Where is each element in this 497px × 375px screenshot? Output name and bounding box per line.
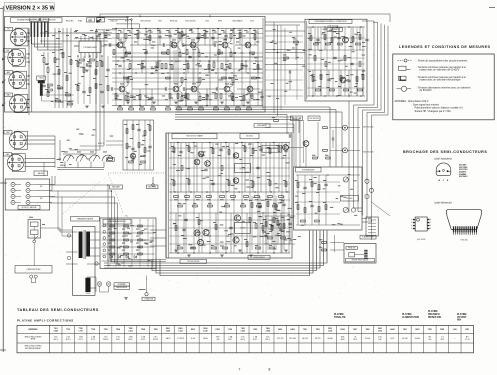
- wire: [230, 213, 232, 253]
- value label: [286, 82, 289, 85]
- board outline protection: [294, 167, 362, 230]
- svg-text:VOYANT: VOYANT: [457, 316, 467, 319]
- table header T851: [428, 329, 432, 331]
- wire mains: [33, 243, 35, 266]
- capacitor C54: [262, 231, 265, 233]
- value label: [269, 228, 272, 231]
- svg-text:T708: T708: [91, 329, 95, 331]
- value label: [287, 213, 290, 216]
- resistor R186: [279, 224, 281, 229]
- value label: [272, 240, 275, 243]
- table value 18b: [265, 339, 270, 341]
- value label: [129, 105, 133, 108]
- value label: [258, 215, 261, 218]
- value label: [140, 105, 144, 108]
- svg-text:L901: L901: [453, 329, 457, 331]
- capacitor C29: [288, 223, 291, 225]
- value label: [108, 249, 111, 252]
- value label: [171, 150, 175, 153]
- wire vertical run: [209, 143, 211, 254]
- wire bus vertical lower: [361, 110, 364, 215]
- connector symbol DIN: [349, 252, 355, 257]
- wire: [110, 218, 166, 262]
- value label T905a: [223, 39, 227, 42]
- junction J6: [157, 28, 158, 29]
- table column line 20: [298, 326, 300, 353]
- table value 8: [141, 336, 146, 339]
- wire bus vertical lower: [348, 101, 350, 213]
- svg-text:F901: F901: [465, 329, 469, 331]
- svg-text:5: 5: [430, 228, 431, 230]
- value label: [136, 242, 139, 245]
- wire: [307, 49, 365, 51]
- table value 15b: [228, 339, 232, 341]
- diode D1: [110, 256, 113, 259]
- value label: [58, 158, 61, 161]
- wire bus vertical lower: [358, 108, 362, 212]
- wire vertical run: [123, 219, 125, 267]
- ground: [284, 250, 288, 252]
- connector point alim board 1: [103, 224, 106, 227]
- svg-text:TABLEAU DES SEMI-CONDUCTEURS: TABLEAU DES SEMI-CONDUCTEURS: [17, 308, 99, 312]
- value label: [79, 133, 82, 136]
- connector label AUX: [5, 71, 13, 75]
- junction J88: [360, 95, 361, 96]
- wire: [66, 251, 78, 253]
- resistor R151: [47, 92, 49, 97]
- wire corner feed: [108, 20, 132, 29]
- value label: [98, 33, 101, 36]
- wire: [51, 176, 53, 191]
- wire rail: [169, 157, 290, 159]
- value label: [177, 31, 180, 34]
- switch block bar vertical: [40, 83, 43, 96]
- resistor R41: [144, 148, 146, 153]
- wire: [373, 21, 378, 23]
- wire: [141, 61, 143, 73]
- wire: [26, 99, 29, 101]
- table column line 7: [136, 326, 138, 353]
- value label: [127, 227, 130, 230]
- table value 33: [454, 338, 456, 340]
- value label: [242, 35, 245, 38]
- switch S903: [33, 236, 38, 243]
- value label: [223, 31, 226, 34]
- value label: [295, 201, 298, 204]
- svg-text:W 06: W 06: [191, 338, 195, 340]
- resistor R114: [124, 225, 129, 227]
- value label: [145, 83, 149, 86]
- label T406: [363, 151, 374, 153]
- value label: [200, 153, 204, 156]
- resistor R24: [129, 108, 134, 110]
- value label: [188, 243, 192, 246]
- capacitor T901 coupling: [163, 43, 165, 46]
- svg-text:GP 250: GP 250: [402, 338, 408, 340]
- wire: [340, 70, 342, 96]
- label IN 50/60: [341, 196, 359, 202]
- wire vertical run: [233, 143, 235, 254]
- junction J66: [183, 72, 184, 73]
- wire: [197, 91, 200, 93]
- wire: [181, 82, 183, 85]
- value label: [170, 97, 173, 100]
- table column line 14: [223, 326, 225, 353]
- value label: [302, 192, 305, 195]
- svg-text:à 907: à 907: [128, 330, 132, 332]
- wire: [87, 287, 96, 289]
- wire: [338, 27, 340, 50]
- wire vertical run: [185, 143, 187, 254]
- connector point CP1: [365, 179, 369, 183]
- table header T908: [141, 329, 145, 331]
- wire: [265, 123, 294, 125]
- table value 27b: [379, 339, 382, 341]
- value label: [321, 32, 323, 35]
- capacitor C4: [154, 66, 157, 68]
- value label: [178, 214, 181, 217]
- value label: [273, 202, 276, 205]
- svg-text:T705: T705: [66, 329, 70, 331]
- value label: [285, 161, 289, 164]
- junction J5: [145, 28, 146, 29]
- wire: [289, 74, 291, 90]
- value label: [278, 234, 281, 237]
- resistor R69: [193, 205, 198, 207]
- wire rail: [169, 243, 290, 245]
- wire: [102, 225, 155, 227]
- table column line 21: [310, 326, 312, 353]
- wire: [102, 232, 155, 234]
- value label T900b: [120, 83, 124, 86]
- wire: [88, 53, 90, 59]
- value label: [279, 198, 283, 201]
- junction J74: [222, 191, 223, 192]
- resistor R144: [125, 96, 127, 101]
- table column line 15: [236, 326, 238, 353]
- value label: [220, 223, 223, 226]
- fuse block outline: [28, 220, 41, 239]
- value label: [239, 158, 242, 161]
- wire: [304, 175, 306, 225]
- svg-text:2 1 05: 2 1 05: [465, 339, 470, 341]
- wire: [155, 61, 157, 73]
- wire: [265, 30, 305, 32]
- value label: [202, 244, 206, 247]
- wire: [103, 162, 105, 168]
- pin label C: [443, 180, 445, 182]
- junction J77: [270, 191, 271, 192]
- value label: [255, 31, 258, 34]
- value label: [326, 86, 329, 89]
- resistor R60: [196, 196, 201, 198]
- value label: [150, 31, 153, 34]
- value label: [87, 157, 90, 160]
- value label: [250, 20, 254, 22]
- resistor T905b emitter: [232, 96, 234, 101]
- wire: [288, 147, 303, 149]
- capacitor C35: [256, 167, 259, 169]
- svg-text:T901 2SC945: T901 2SC945: [140, 20, 150, 22]
- value label: [90, 151, 94, 154]
- value label: [332, 223, 336, 226]
- wire vertical run: [281, 143, 283, 254]
- legend text 2a: [417, 66, 467, 69]
- table value 5: [104, 337, 109, 339]
- svg-text:D504: D504: [341, 328, 345, 331]
- wire: [87, 231, 100, 233]
- capacitor C20: [337, 37, 340, 39]
- connector pin row 3: [368, 225, 376, 227]
- wire vertical run: [103, 30, 105, 146]
- TO-92 package outline: [436, 163, 451, 176]
- wire bus: [175, 110, 336, 168]
- value label: [211, 244, 214, 247]
- wire: [254, 29, 256, 46]
- wire: [206, 89, 208, 106]
- resistor R45: [188, 147, 190, 152]
- board label tonalite: [309, 20, 352, 24]
- resistor T901 emitter: [179, 52, 181, 57]
- pot label: [107, 158, 115, 162]
- value label: [282, 157, 285, 160]
- wire: [139, 15, 141, 18]
- svg-text:28 440: 28 440: [328, 338, 333, 340]
- pot label balance: [34, 171, 48, 176]
- value label: [200, 36, 203, 39]
- wire: [371, 220, 373, 241]
- value label: [121, 56, 125, 59]
- wire: [102, 253, 155, 255]
- transistor T909: [233, 178, 239, 184]
- legend text 3b: [420, 79, 462, 82]
- table value 3b: [79, 339, 83, 341]
- junction J53: [143, 60, 144, 61]
- wire: [232, 82, 234, 85]
- value label: [183, 202, 186, 205]
- connector label TUNER: [4, 49, 12, 53]
- value label: [338, 59, 341, 62]
- table header D401: [278, 328, 282, 331]
- value label: [206, 36, 209, 39]
- value label: [177, 105, 181, 108]
- wire: [283, 216, 285, 244]
- table header T706: [79, 328, 83, 330]
- table column line 2: [73, 326, 75, 353]
- value label: [273, 28, 276, 31]
- svg-text:RECORD: RECORD: [66, 20, 74, 22]
- wire: [169, 212, 290, 214]
- wire: [96, 36, 98, 41]
- value label: [354, 214, 357, 217]
- value label: [296, 56, 298, 59]
- value label: [104, 43, 108, 46]
- value label: [256, 98, 259, 101]
- value label: [187, 98, 190, 101]
- value label: [136, 123, 139, 126]
- wire: [262, 213, 264, 253]
- resistor R26: [151, 108, 156, 110]
- resistor R153: [221, 166, 223, 171]
- svg-text:2473: 2473: [353, 339, 357, 341]
- resistor R2: [58, 70, 60, 75]
- table column line 29: [410, 326, 412, 353]
- connector pin 6: [364, 258, 367, 259]
- resistor R78: [246, 242, 248, 247]
- junction J15: [187, 60, 188, 61]
- table column line 24: [348, 326, 350, 353]
- junction J43: [273, 142, 274, 143]
- wire: [230, 49, 232, 52]
- resistor T905b bias: [220, 94, 222, 99]
- value label: [66, 34, 69, 37]
- wire: [265, 49, 305, 51]
- value label: [182, 52, 185, 55]
- svg-text:D604: D604: [390, 328, 394, 331]
- ground: [220, 255, 224, 257]
- svg-text:PLATINE: PLATINE: [334, 313, 344, 316]
- legend symbol raccordement: [398, 59, 413, 62]
- value label: [327, 174, 329, 177]
- value label: [235, 96, 238, 99]
- wire bus: [175, 117, 293, 133]
- svg-text:T904: T904: [116, 328, 120, 331]
- svg-text:à 904: à 904: [54, 329, 58, 332]
- capacitor C43: [100, 91, 103, 93]
- table column line 28: [398, 326, 400, 353]
- resistor R73: [257, 205, 262, 207]
- value label: [181, 94, 184, 97]
- value label: [287, 49, 291, 52]
- table value 14: [216, 337, 220, 339]
- value label: [115, 98, 119, 101]
- wire vertical run: [257, 29, 259, 106]
- value label: [128, 257, 131, 260]
- wire rail: [169, 219, 290, 221]
- value label: [84, 34, 87, 37]
- resistor R155: [273, 218, 275, 223]
- value label: [235, 187, 238, 190]
- wire rail: [112, 68, 263, 70]
- svg-text:masse avec un voltmètre électr: masse avec un voltmètre électronique.: [420, 79, 462, 82]
- junction J87: [360, 26, 361, 27]
- resistor R138: [250, 52, 255, 54]
- wire: [80, 145, 104, 147]
- row header REPERES: [28, 329, 38, 331]
- wire: [102, 260, 155, 262]
- resistor R35: [126, 129, 128, 134]
- value label: [188, 105, 192, 108]
- svg-text:: Points de raccordement des c: : Points de raccordement des circuits im…: [417, 59, 469, 62]
- ground: [174, 250, 178, 252]
- wire: [2, 6, 4, 352]
- wire: [150, 229, 166, 231]
- junction J81: [324, 26, 325, 27]
- label U903: [240, 228, 246, 230]
- table column line 26: [373, 326, 375, 353]
- value label: [212, 29, 215, 32]
- resistor R145: [161, 64, 163, 69]
- table column line 19: [285, 326, 287, 353]
- value label: [255, 244, 258, 247]
- wire: [188, 143, 190, 193]
- wire: [26, 53, 29, 55]
- transistor T907: [205, 161, 211, 167]
- ground: [85, 70, 89, 72]
- value label: [284, 238, 287, 241]
- capacitor C34: [204, 169, 207, 171]
- value label: [350, 91, 353, 94]
- svg-text:T801: T801: [403, 329, 407, 331]
- capacitor C47: [118, 65, 121, 67]
- svg-text:S-2: S-2: [43, 19, 46, 21]
- value label: [60, 101, 63, 104]
- capacitor C42: [82, 91, 85, 93]
- table header T709: [104, 329, 108, 331]
- value label: [127, 29, 130, 32]
- value label: [121, 261, 124, 264]
- wire: [59, 140, 61, 161]
- svg-text:945 Q: 945 Q: [240, 339, 245, 341]
- value label T904: [192, 83, 196, 86]
- resistor R49: [252, 149, 254, 154]
- board outline preamp inner edge: [262, 18, 264, 110]
- wire vertical run: [299, 117, 301, 167]
- capacitor T905b coupling: [216, 87, 218, 90]
- value label: [56, 58, 60, 61]
- value label: [161, 72, 164, 75]
- resistor R22: [243, 96, 245, 101]
- value label: [120, 254, 123, 257]
- value label: [78, 62, 82, 65]
- svg-text:à 403: à 403: [241, 329, 245, 332]
- svg-text:BROCHAGE DES SEMI-CONDUCTEURS: BROCHAGE DES SEMI-CONDUCTEURS: [403, 150, 487, 154]
- wire: [66, 263, 78, 265]
- DIP-8 pin 7: [427, 222, 429, 223]
- value label: [238, 69, 241, 72]
- transistor T900b: [119, 86, 125, 92]
- ground: [101, 106, 105, 108]
- value label: [95, 30, 98, 33]
- value label: [130, 239, 133, 242]
- transistor T907: [247, 86, 253, 92]
- value label: [231, 98, 234, 101]
- resistor R8: [96, 62, 98, 67]
- wire vertical run: [251, 196, 253, 250]
- wire: [173, 143, 175, 193]
- junction J11: [249, 28, 250, 29]
- resistor R81: [191, 247, 196, 249]
- value label: [312, 75, 315, 78]
- value label: [78, 82, 81, 85]
- terminal HP 4-1: [11, 200, 15, 204]
- capacitor C8: [137, 129, 140, 131]
- table column line 3: [86, 326, 88, 353]
- value label: [298, 235, 301, 238]
- subtitle cote elements: [434, 202, 451, 205]
- svg-text:IC901: IC901: [216, 329, 221, 331]
- wire: [26, 79, 29, 81]
- svg-text:945: 945: [379, 339, 382, 341]
- junction J85: [348, 26, 349, 27]
- resistor R181: [251, 203, 253, 208]
- wire: [307, 26, 365, 28]
- wire vertical run: [241, 143, 243, 254]
- wire: [132, 120, 134, 170]
- resistor R7: [90, 59, 95, 61]
- junction J16: [208, 60, 209, 61]
- wire: [84, 53, 86, 59]
